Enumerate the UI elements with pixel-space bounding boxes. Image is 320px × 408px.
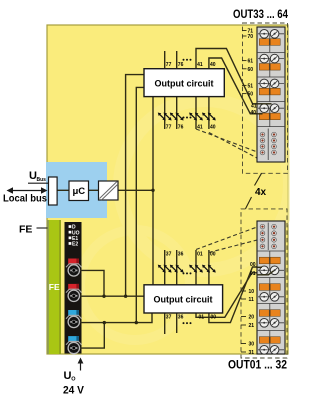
svg-text:00: 00 [250,262,256,268]
svg-text:4x: 4x [255,187,267,198]
svg-text:37: 37 [166,252,172,258]
svg-text:30: 30 [249,342,255,348]
svg-text:24 V: 24 V [63,385,85,397]
svg-text:11: 11 [249,297,255,303]
svg-text:Local bus: Local bus [3,193,47,205]
svg-text:76: 76 [178,62,184,68]
svg-text:21: 21 [249,323,255,329]
svg-text:OUT01 ... 32: OUT01 ... 32 [228,360,287,372]
svg-text:36: 36 [178,314,184,320]
svg-text:10: 10 [249,289,255,295]
svg-text:36: 36 [178,252,184,258]
svg-text:01: 01 [250,271,256,277]
svg-text:Output circuit: Output circuit [154,295,213,305]
svg-text:60: 60 [248,67,254,73]
svg-text:41: 41 [197,124,203,130]
svg-text:31: 31 [249,350,255,356]
svg-text:76: 76 [178,124,184,130]
svg-text:00: 00 [211,314,217,320]
svg-text:37: 37 [166,314,172,320]
svg-text:Bus: Bus [37,177,47,183]
svg-text:77: 77 [166,124,172,130]
svg-text:40: 40 [210,124,216,130]
svg-text:70: 70 [248,34,254,40]
svg-text:40: 40 [210,62,216,68]
svg-text:61: 61 [248,59,254,65]
svg-text:41: 41 [197,62,203,68]
svg-text:40: 40 [251,110,257,116]
svg-text:20: 20 [249,315,255,321]
svg-text:E2: E2 [72,242,78,248]
svg-text:51: 51 [248,83,254,89]
svg-text:00: 00 [210,252,216,258]
svg-text:Output circuit: Output circuit [155,78,214,88]
svg-text:41: 41 [251,103,257,109]
svg-text:77: 77 [166,62,172,68]
svg-text:01: 01 [197,252,203,258]
svg-text:OUT33 ... 64: OUT33 ... 64 [233,9,288,21]
svg-text:FE: FE [19,224,32,236]
svg-text:FE: FE [49,282,60,292]
svg-text:O: O [71,377,76,383]
svg-text:U: U [64,370,72,382]
svg-text:μC: μC [72,186,85,197]
svg-text:01: 01 [199,314,205,320]
svg-text:50: 50 [248,92,254,98]
